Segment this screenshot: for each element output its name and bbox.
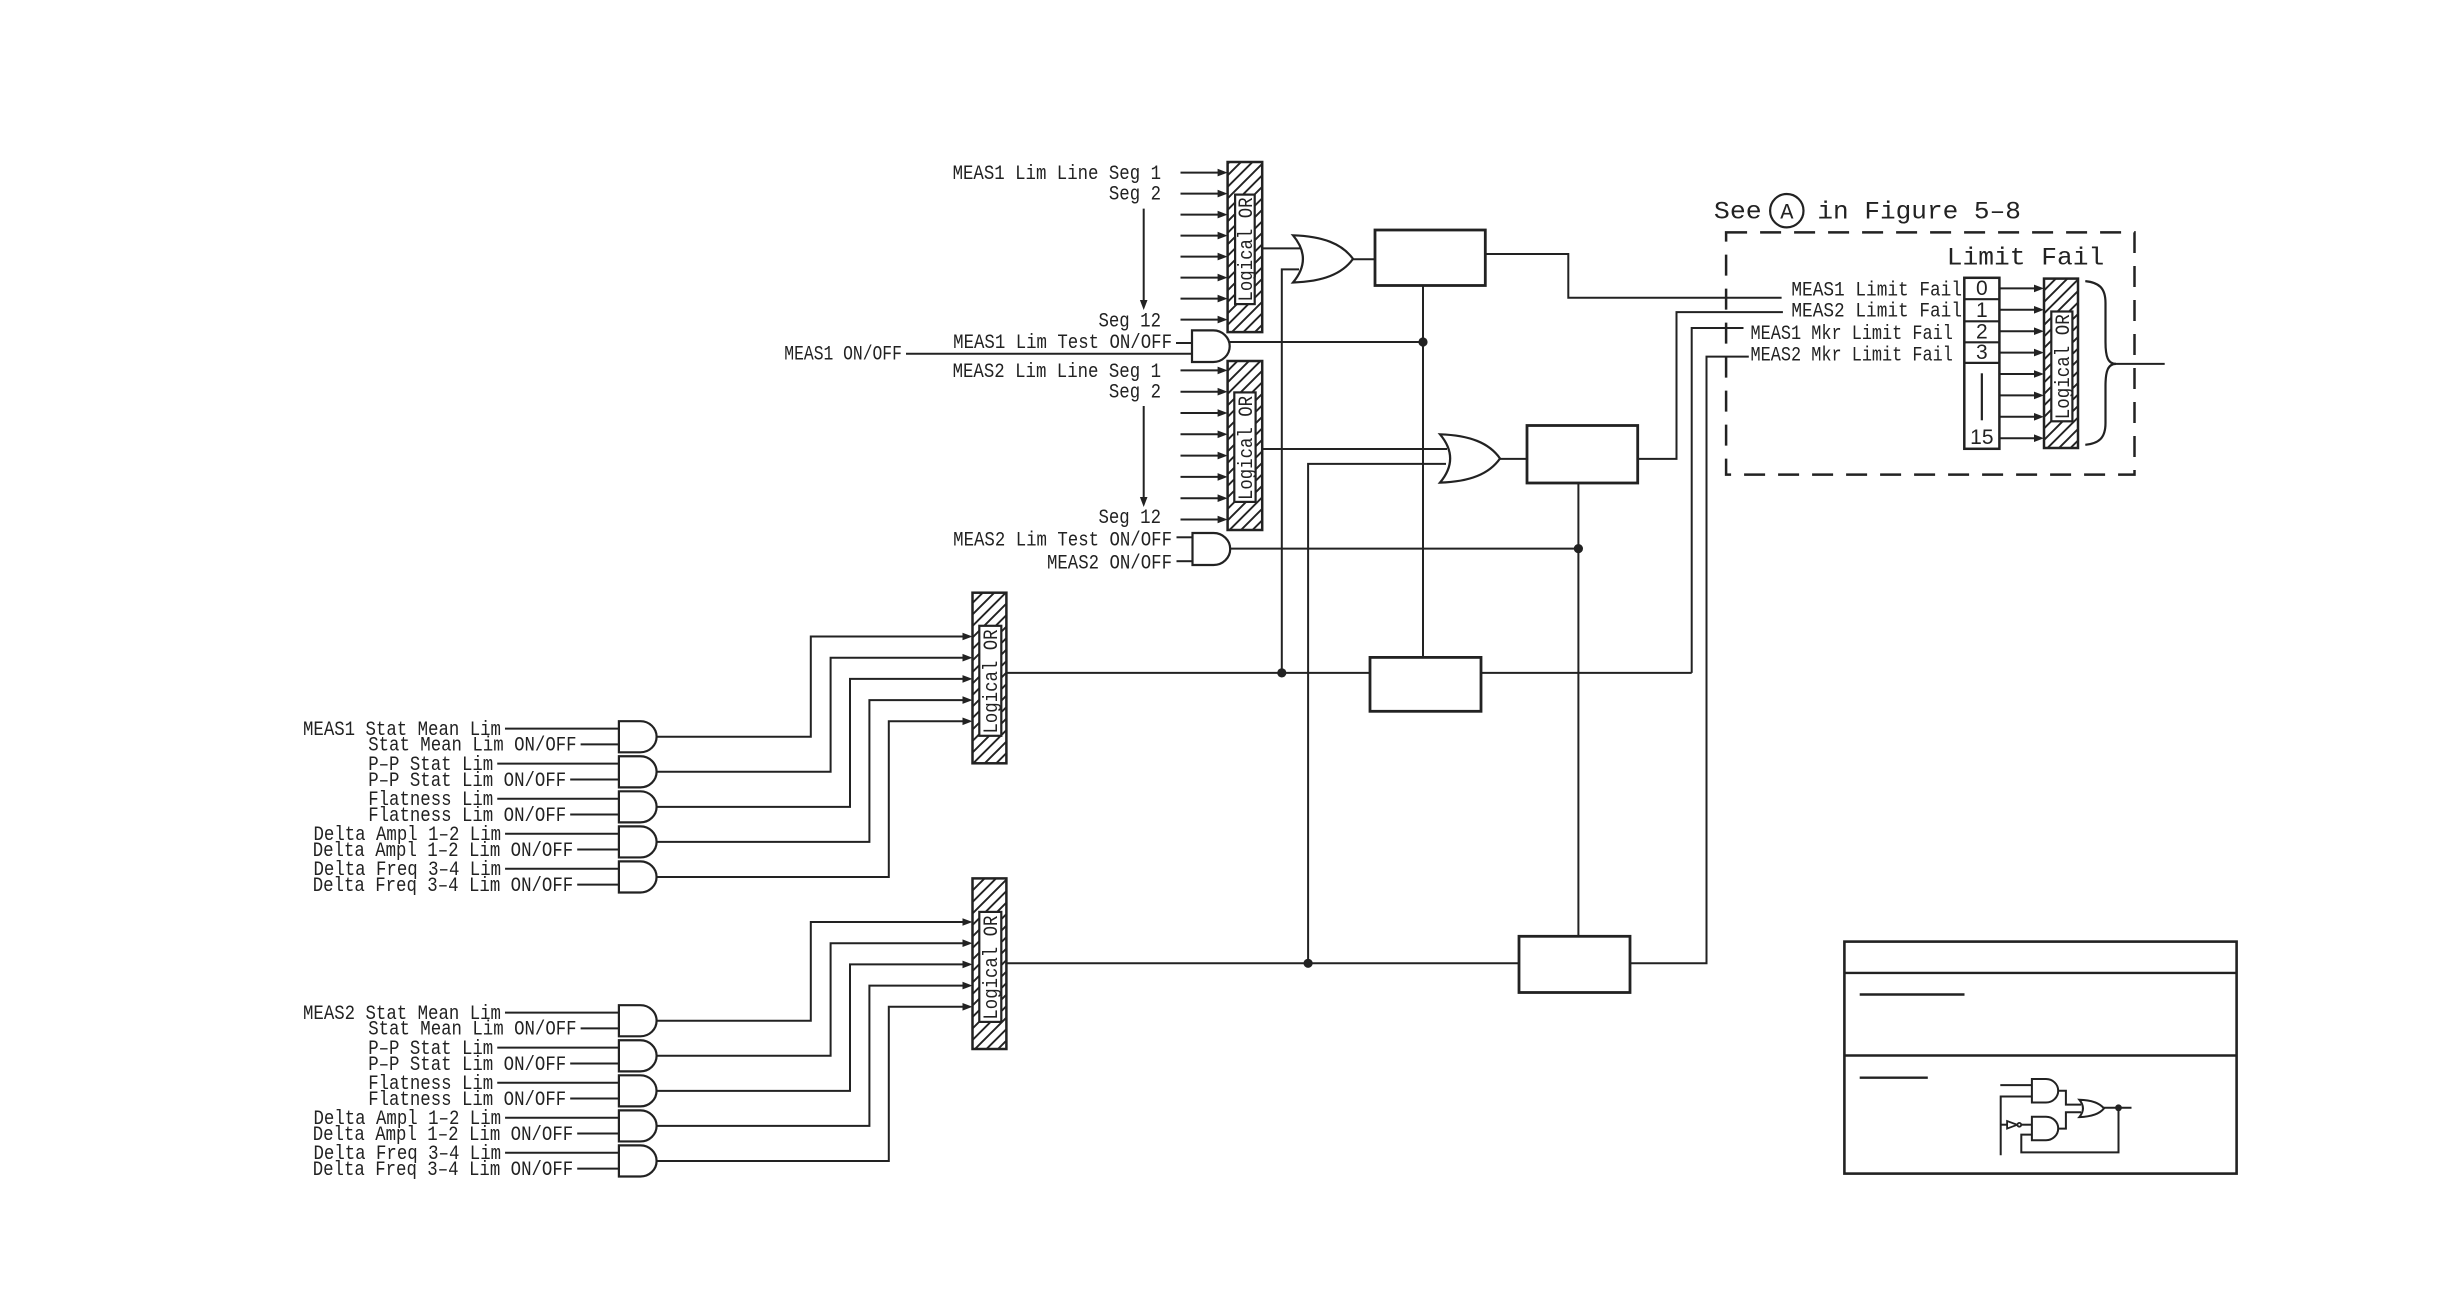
wire: MEAS2 row 10 to AND gate <box>577 1168 619 1170</box>
wire: register bit arrow 7 to U5 <box>1999 416 2037 418</box>
svg-text:Logical OR: Logical OR <box>1236 396 1259 500</box>
wire: register bit arrow 2 to U5 <box>1999 309 2037 311</box>
svg-text:MEAS1 Lim Test ON/OFF: MEAS1 Lim Test ON/OFF <box>953 332 1172 355</box>
svg-text:MEAS2 Lim Line Seg 1: MEAS2 Lim Line Seg 1 <box>953 361 1161 384</box>
wire: LA output to OR <box>2058 1091 2081 1105</box>
wire: R2 output to MEAS2 Limit Fail row <box>1638 312 1783 459</box>
wire: MEAS1 Lim Line seg input arrow 3 <box>1181 214 1221 216</box>
wire: MEAS2 Lim Line seg input arrow 3 <box>1181 412 1221 414</box>
wire: MEAS2 row 6 to AND gate <box>570 1098 619 1100</box>
wire: MEAS2-G2 output stair to OR block input <box>657 943 966 1056</box>
wire: MEAS1 Lim Test ON/OFF to A1 input <box>1176 342 1192 344</box>
wire: register bit arrow 4 to U5 <box>1999 352 2037 354</box>
logical-OR block U2 (MEAS2 Lim Line segs) <box>1228 361 1263 530</box>
and-gate MEAS1-G3 <box>619 791 657 822</box>
wire: MEAS2 row 5 to AND gate <box>497 1082 619 1084</box>
wire: MEAS2 row 3 to AND gate <box>497 1047 619 1049</box>
junction J2 (A2 output joins R2-R4 vertical) <box>1574 544 1583 553</box>
svg-text:Limit Fail: Limit Fail <box>1947 243 2104 272</box>
wire: MEAS2 Lim Line seg input arrow 8 <box>1181 519 1221 521</box>
wire: MEAS1 Lim Line seg input arrow 5 <box>1181 256 1221 258</box>
junction J5 (latch feedback) <box>2115 1104 2122 1111</box>
wire: G2 output to R2 <box>1500 458 1527 460</box>
latch and-gate LA input 2 with vertical stub <box>2001 1097 2032 1156</box>
svg-text:A: A <box>1780 201 1794 226</box>
wire: MEAS1 row 6 to AND gate <box>570 814 619 816</box>
wire: MEAS1 Lim Line seg input arrow 7 <box>1181 298 1221 300</box>
svg-text:0: 0 <box>1976 277 1988 300</box>
wire: R4 output up to MEAS2 Mkr Limit Fail row <box>1630 357 1749 964</box>
wire: latch OR output <box>2104 1107 2132 1109</box>
latch and-gate LA input 1 <box>2000 1084 2032 1086</box>
wire: MEAS1 row 4 to AND gate <box>570 778 619 780</box>
and-gate MEAS1-G2 <box>619 756 657 787</box>
register cell divider <box>1964 320 1999 322</box>
wire: Limit Fail output <box>2115 363 2165 365</box>
and-gate MEAS1-G1 <box>619 721 657 752</box>
logical-OR block U4 (MEAS2 stat limits) <box>973 878 1007 1049</box>
wire: MEAS1 Lim Line seg input arrow 2 <box>1181 193 1221 195</box>
wire: MEAS1-G5 output stair to OR block input <box>657 721 966 877</box>
continuation arrow (Seg 2 to Seg 12, MEAS1) <box>1143 209 1145 303</box>
wire: MEAS1-G2 output stair to OR block input <box>657 658 966 772</box>
register cell divider <box>1964 298 1999 300</box>
wire: G1 output to R1 <box>1353 258 1375 260</box>
junction J1 (A1 output joins R1-R3 vertical) <box>1418 337 1427 346</box>
wire: MEAS2-G3 output stair to OR block input <box>657 964 966 1090</box>
circled A reference bubble <box>1770 194 1803 227</box>
wire: register bit arrow 1 to U5 <box>1999 287 2037 289</box>
wire: A1 output to node J1 <box>1230 341 1423 343</box>
wire: MEAS2 row 7 to AND gate <box>505 1117 619 1119</box>
wire: register bit arrow 3 to U5 <box>1999 330 2037 332</box>
svg-text:Logical OR: Logical OR <box>981 630 1004 734</box>
wire: MEAS2 row 2 to AND gate <box>581 1027 619 1029</box>
wire: U4 output run to R4 <box>1006 962 1519 964</box>
register continuation mark <box>1981 373 1983 420</box>
wire: MEAS2 row 4 to AND gate <box>570 1062 619 1064</box>
wire: U1 output to OR gate G1 <box>1262 247 1300 249</box>
and-gate MEAS2-G3 <box>619 1075 657 1106</box>
logical-OR block U1 (MEAS1 Lim Line segs) <box>1228 162 1263 332</box>
wire: MEAS2 row 8 to AND gate <box>577 1133 619 1135</box>
wire: register bit arrow 5 to U5 <box>1999 373 2037 375</box>
svg-text:MEAS2 Limit Fail: MEAS2 Limit Fail <box>1791 301 1962 324</box>
wire: MEAS1 row 7 to AND gate <box>505 833 619 835</box>
box R2 <box>1527 426 1638 484</box>
wire: vertical from G1 lower input down to node J3 <box>1282 269 1299 673</box>
and-gate MEAS2-G4 <box>619 1110 657 1141</box>
latch and-gate LA <box>2032 1079 2058 1103</box>
svg-text:MEAS1 Lim Line Seg 1: MEAS1 Lim Line Seg 1 <box>953 163 1161 186</box>
svg-text:Seg 12: Seg 12 <box>1098 311 1161 334</box>
wire: register bit arrow 8 to U5 <box>1999 437 2037 439</box>
svg-text:MEAS1 ON/OFF: MEAS1 ON/OFF <box>784 344 902 367</box>
and-gate MEAS2-G5 <box>619 1145 657 1176</box>
svg-text:Delta Freq 3–4 Lim ON/OFF: Delta Freq 3–4 Lim ON/OFF <box>313 875 574 898</box>
wire: vertical from G2 lower input down to node J4 <box>1308 464 1446 963</box>
wire: MEAS1 Lim Line seg input arrow 8 <box>1181 319 1221 321</box>
wire: MEAS1 row 1 to AND gate <box>505 728 619 730</box>
wire: MEAS2 row 1 to AND gate <box>505 1012 619 1014</box>
latch inverter output to LB <box>2021 1124 2032 1126</box>
svg-text:MEAS2 Mkr Limit Fail: MEAS2 Mkr Limit Fail <box>1751 345 1953 368</box>
svg-text:MEAS2 Lim Test ON/OFF: MEAS2 Lim Test ON/OFF <box>953 530 1172 553</box>
wire: R2 bottom to R4 top (via node J2) <box>1577 483 1579 936</box>
wire: MEAS1 Lim Line seg input arrow 4 <box>1181 235 1221 237</box>
wire: MEAS1-G4 output stair to OR block input <box>657 700 966 842</box>
register box (16-bit limit-fail register) <box>1964 278 1999 449</box>
latch or-gate LO <box>2079 1100 2104 1117</box>
wire: latch feedback loop <box>2021 1108 2118 1153</box>
wire: MEAS1 row 8 to AND gate <box>577 849 619 851</box>
and-gate MEAS2-G1 <box>619 1005 657 1036</box>
latch and-gate LB <box>2032 1117 2058 1141</box>
wire: MEAS1 row 10 to AND gate <box>577 884 619 886</box>
wire: MEAS1 row 3 to AND gate <box>497 763 619 765</box>
legend box <box>1844 942 2236 1174</box>
box R4 <box>1519 936 1630 992</box>
svg-text:MEAS1 Mkr Limit Fail: MEAS1 Mkr Limit Fail <box>1751 323 1953 346</box>
svg-text:1: 1 <box>1976 299 1988 322</box>
wire: LB output to OR <box>2058 1112 2081 1128</box>
junction J3 (stat OR output joins G1 vertical) <box>1277 668 1286 677</box>
svg-text:15: 15 <box>1970 426 1993 449</box>
box R3 <box>1370 657 1481 711</box>
and-gate MEAS2-G2 <box>619 1040 657 1071</box>
wire: register bit arrow 6 to U5 <box>1999 394 2037 396</box>
brace (U5 outputs combined) <box>2085 281 2116 445</box>
wire: MEAS2 Lim Line seg input arrow 2 <box>1181 391 1221 393</box>
svg-text:Logical OR: Logical OR <box>2053 314 2076 419</box>
svg-text:MEAS2 ON/OFF: MEAS2 ON/OFF <box>1047 552 1172 575</box>
dashed box (Limit Fail register) <box>1726 232 2134 474</box>
or-gate G2 (MEAS2 limit OR) <box>1440 434 1500 482</box>
wire: MEAS2 ON/OFF to A2 input <box>1177 560 1193 562</box>
svg-text:Logical OR: Logical OR <box>981 916 1004 1020</box>
wire: R1 output to MEAS1 Limit Fail row <box>1485 254 1781 298</box>
svg-text:Seg 2: Seg 2 <box>1109 382 1161 405</box>
svg-text:3: 3 <box>1976 341 1988 364</box>
junction J4 (stat OR output joins G2 vertical) <box>1304 959 1313 968</box>
wire: MEAS1 Lim Line seg input arrow 1 <box>1181 172 1221 174</box>
svg-text:Seg 12: Seg 12 <box>1098 507 1161 530</box>
and-gate MEAS1-G5 <box>619 861 657 892</box>
wire: MEAS2-G1 output stair to OR block input <box>657 922 966 1021</box>
and-gate MEAS1-G4 <box>619 826 657 857</box>
and-gate A2 (MEAS2 Lim Test) <box>1193 533 1231 565</box>
svg-text:Seg 2: Seg 2 <box>1109 184 1161 207</box>
svg-text:in Figure 5–8: in Figure 5–8 <box>1817 198 2021 227</box>
wire: MEAS2 Lim Line seg input arrow 4 <box>1181 433 1221 435</box>
svg-text:2: 2 <box>1976 320 1988 343</box>
wire: MEAS2-G5 output stair to OR block input <box>657 1007 966 1161</box>
wire: MEAS1-G3 output stair to OR block input <box>657 679 966 807</box>
wire: MEAS2 row 9 to AND gate <box>505 1152 619 1154</box>
wire: MEAS2-G4 output stair to OR block input <box>657 986 966 1126</box>
legend divider 2 <box>1844 1054 2236 1056</box>
wire: MEAS2 Lim Line seg input arrow 7 <box>1181 497 1221 499</box>
svg-text:MEAS1 Limit Fail: MEAS1 Limit Fail <box>1791 279 1962 302</box>
svg-text:See: See <box>1714 198 1762 227</box>
box R1 <box>1375 230 1485 286</box>
continuation arrow (Seg 2 to Seg 12, MEAS2) <box>1143 406 1145 500</box>
legend sample line 1 <box>1860 993 1965 995</box>
or-gate G1 (MEAS1 limit OR) <box>1293 235 1353 282</box>
wire: R1 bottom to R3 top (via node J1) <box>1422 286 1424 658</box>
wire: MEAS1 row 9 to AND gate <box>505 868 619 870</box>
svg-text:Delta Freq 3–4 Lim ON/OFF: Delta Freq 3–4 Lim ON/OFF <box>313 1159 574 1182</box>
register cell divider <box>1964 341 1999 343</box>
wire: MEAS1 ON/OFF to A1 input <box>906 353 1192 355</box>
wire: MEAS2 Lim Test ON/OFF to A2 input <box>1177 536 1193 538</box>
latch inverter input stub <box>2001 1124 2007 1126</box>
wire: MEAS2 Lim Line seg input arrow 5 <box>1181 455 1221 457</box>
latch inverter <box>2007 1121 2017 1129</box>
wire: U3 output run to MEAS1 Mkr Limit Fail corner <box>1006 672 1691 674</box>
wire: MEAS1-G1 output stair to OR block input <box>657 637 966 737</box>
register cell divider <box>1964 362 1999 364</box>
wire: MEAS2 Lim Line seg input arrow 6 <box>1181 476 1221 478</box>
legend divider 1 <box>1844 972 2236 974</box>
logical-OR block U5 (Limit Fail OR) <box>2044 279 2078 448</box>
wire: MEAS1 row 2 to AND gate <box>581 743 619 745</box>
legend sample line 2 <box>1860 1076 1928 1078</box>
wire: MEAS1 row 5 to AND gate <box>497 798 619 800</box>
wire: A2 output to node J2 <box>1230 548 1578 550</box>
logical-OR block U3 (MEAS1 stat limits) <box>973 593 1007 764</box>
svg-text:Logical OR: Logical OR <box>1236 198 1259 302</box>
wire: U2 output to OR gate G2 <box>1262 448 1447 450</box>
wire: R3 output up to MEAS1 Mkr Limit Fail row <box>1692 328 1744 673</box>
wire: MEAS1 Lim Line seg input arrow 6 <box>1181 277 1221 279</box>
and-gate A1 (MEAS1 Lim Test) <box>1192 330 1230 362</box>
wire: MEAS2 Lim Line seg input arrow 1 <box>1181 369 1221 371</box>
